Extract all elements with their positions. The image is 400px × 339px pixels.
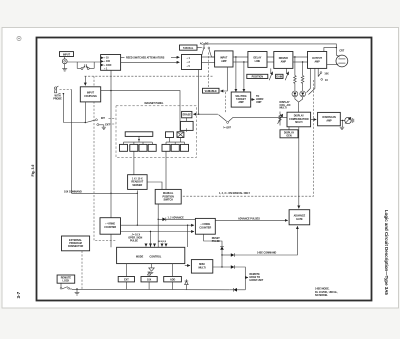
svg-text:Logic and Circuit Description—: Logic and Circuit Description—Type 3A5 — [384, 210, 389, 295]
label INPUT — [60, 52, 74, 57]
label REMOTE LOCK — [57, 275, 75, 283]
svg-text:INPUT: INPUT — [220, 56, 228, 59]
svg-text:COUPLING: COUPLING — [84, 95, 97, 98]
variable resistor display comp — [278, 112, 283, 126]
wire counter bus upper — [121, 225, 195, 226]
svg-text:CONNECTOR: CONNECTOR — [68, 245, 84, 248]
svg-text:LOCK: LOCK — [63, 280, 70, 283]
note text block — [315, 288, 338, 297]
block OUTPUT AMP — [308, 52, 327, 69]
block ADD button — [164, 277, 182, 282]
block 10X button — [141, 277, 157, 282]
block SIG TRIG TARGET AMP — [231, 92, 251, 107]
ground below BNC — [62, 64, 67, 71]
block readout drum — [125, 132, 153, 137]
wire display comp to advance gate — [298, 127, 300, 209]
dashed program connector down — [81, 251, 83, 289]
svg-text:1, 2 ADVANCE: 1, 2 ADVANCE — [168, 216, 185, 219]
svg-text:PULSE: PULSE — [212, 240, 220, 243]
wire bus drops to mode control — [146, 225, 188, 247]
label TAB BAL — [180, 45, 202, 50]
svg-text:MULTI: MULTI — [280, 107, 287, 110]
block MISC MULTI — [185, 260, 213, 274]
svg-text:MULTI: MULTI — [199, 267, 206, 270]
switch remote lock — [60, 283, 72, 289]
wire input amp bottom pair — [220, 67, 227, 113]
svg-text:VARIABLE: VARIABLE — [205, 90, 217, 93]
svg-text:÷ 10: ÷ 10 — [104, 57, 109, 60]
label 1 2 ADVANCE — [168, 216, 185, 219]
svg-text:GATE: GATE — [296, 218, 303, 221]
wire buttons to bottom rail — [126, 282, 172, 289]
svg-text:GAIN: GAIN — [276, 76, 282, 79]
svg-text:10X: 10X — [147, 279, 152, 282]
wire ring4 to mode control — [110, 234, 112, 247]
svg-text:COUNTER: COUNTER — [104, 226, 116, 229]
input coupling switch contacts — [81, 67, 89, 69]
block INPUT AMP — [215, 51, 233, 67]
svg-text:REED SWITCHED ATTENUATORS: REED SWITCHED ATTENUATORS — [126, 56, 165, 59]
wire driver amp to output amp — [293, 56, 308, 62]
wire counter bus middle — [121, 231, 195, 232]
dashed linkage mag switch down — [181, 80, 313, 196]
wire ext vertical to trigger switch — [63, 93, 64, 123]
svg-text:MULTI: MULTI — [295, 121, 302, 124]
resistor R display right — [301, 62, 304, 91]
wire BNC to coupling switch — [67, 62, 101, 68]
wire erase command — [222, 226, 297, 257]
svg-text:AMP: AMP — [281, 60, 287, 63]
wire input amp to delay line — [233, 56, 248, 62]
switch uncal — [199, 114, 232, 129]
block latch lower — [181, 121, 194, 130]
wire divider box to erase latch — [193, 70, 199, 115]
magnet coil boxes left — [120, 144, 157, 151]
svg-text:CRT: CRT — [339, 50, 344, 53]
wire display comp to overscan — [311, 119, 317, 121]
block trace position pair — [166, 132, 184, 138]
resistor R display left — [294, 57, 297, 91]
wire latch stubs — [186, 118, 188, 132]
wire coupling box bottom — [84, 102, 86, 123]
svg-text:AMP: AMP — [314, 60, 320, 63]
diode display left — [292, 91, 299, 112]
svg-text:COUNTER: COUNTER — [199, 227, 211, 230]
dashed linkage horizontal from coupling switch — [85, 75, 213, 77]
switch AC-DC — [200, 43, 215, 57]
svg-text:EXT: EXT — [124, 279, 129, 282]
block reed attenuator dividers — [101, 55, 121, 71]
block erase latch — [182, 111, 192, 117]
label POSITION pot — [247, 68, 273, 80]
svg-text:AMP: AMP — [326, 119, 332, 122]
label ERASE COMMAND — [257, 252, 277, 255]
block MODE CONTROL — [117, 247, 185, 263]
wire signal taps to target amp — [236, 57, 244, 92]
AC coupling capacitor — [83, 64, 88, 68]
wire magnet to manual switch — [165, 151, 167, 189]
svg-text:OUTPUT: OUTPUT — [312, 57, 322, 60]
wire magnet to readout senser — [133, 151, 135, 174]
block DRIVER AMP — [274, 52, 293, 69]
svg-text:GEN: GEN — [286, 135, 291, 138]
svg-text:14SE COMMAND: 14SE COMMAND — [257, 252, 277, 255]
diode reset — [220, 246, 224, 267]
probe icon — [55, 86, 59, 93]
wire top rail to CRT — [203, 43, 338, 56]
svg-text:SENSER: SENSER — [132, 184, 142, 187]
diode advance — [158, 218, 195, 222]
dashed linkage AC-DC to VARIABLE — [208, 53, 210, 89]
wire attenuator drive vertical — [110, 70, 111, 217]
dashed linkage vertical to program row — [94, 76, 117, 240]
svg-text:PULSE: PULSE — [130, 239, 138, 242]
CRT V1 — [336, 50, 348, 67]
label RESET PULSE — [212, 237, 221, 243]
block ADVANCE GATE — [289, 210, 310, 225]
wire 10X command — [72, 193, 139, 194]
svg-text:MAGNET PANEL: MAGNET PANEL — [145, 102, 164, 105]
wire advance pulses — [215, 219, 287, 221]
block gain switch dividers — [182, 55, 202, 70]
svg-text:SWITCH: SWITCH — [163, 199, 173, 202]
label TO HORIZ UNIT — [251, 95, 264, 104]
block MANUAL POSITION SWITCH — [155, 189, 181, 204]
wire remote erase bottom — [230, 288, 246, 292]
label GAIN pot — [276, 68, 289, 80]
svg-text:DRIVER: DRIVER — [279, 57, 288, 60]
block 1X 10X READOUT SENSER — [128, 175, 148, 190]
svg-text:AMP: AMP — [221, 60, 227, 63]
overscan lamp — [340, 117, 354, 124]
diode display right — [299, 91, 306, 102]
wire manual switch down — [158, 204, 159, 247]
svg-text:3-7: 3-7 — [16, 291, 21, 298]
svg-text:NO MODEL: NO MODEL — [315, 294, 328, 297]
wire readout senser down — [137, 190, 138, 226]
svg-text:a a p p: a a p p — [159, 240, 167, 243]
diode bottom rail up — [185, 279, 189, 289]
dashed probe links — [59, 90, 72, 94]
wire buttons to mode control — [126, 264, 172, 277]
block OVERSCAN AMP — [318, 112, 341, 125]
svg-text:UNIT: UNIT — [256, 101, 262, 104]
switch 10X 1X mag — [318, 68, 329, 82]
block divide by 3 ring counter — [195, 218, 215, 234]
block divide by 4 ring counter — [100, 218, 121, 235]
label REMOTE ERASE TO HORIZ UNIT — [250, 273, 264, 282]
ground at overscan — [340, 120, 344, 130]
label REED SWITCHED ATTENUATORS — [121, 56, 180, 59]
label 10X COMMAND — [64, 190, 82, 193]
svg-text:Fig. 3-6: Fig. 3-6 — [31, 165, 35, 177]
svg-text:CONTROL: CONTROL — [150, 255, 162, 258]
magnet coil boxes right — [162, 144, 189, 151]
svg-text:INPUT: INPUT — [63, 53, 71, 56]
svg-text:AMP: AMP — [238, 101, 244, 104]
wire misc multi to remote erase — [213, 265, 248, 290]
svg-text:DELAY: DELAY — [253, 57, 261, 60]
svg-text:INPUT: INPUT — [87, 92, 95, 95]
wire drum to magnet rail — [124, 136, 153, 144]
label DISPLAY COIL DC MULTI — [280, 101, 291, 110]
wire divider box to input amp — [202, 57, 215, 62]
svg-text:10X COMMAND: 10X COMMAND — [64, 190, 82, 193]
diode above 10X button — [148, 272, 151, 277]
label VOLTS PROBE — [53, 95, 62, 101]
wire ring3 reset vertical — [204, 234, 222, 246]
svg-text:1X: 1X — [325, 79, 328, 82]
schematic border frame — [37, 38, 372, 301]
svg-text:HORIZ UNIT: HORIZ UNIT — [250, 279, 264, 282]
wire probe vertical to 10X command — [71, 90, 73, 194]
punch hole mark — [17, 36, 21, 40]
wire bottom rail — [72, 288, 230, 290]
block INPUT COUPLING — [80, 87, 100, 102]
label OPER SIGN PULSE — [128, 231, 166, 242]
ground remote lock — [75, 288, 80, 295]
svg-text:INT: INT — [101, 117, 105, 120]
wire attenuator lower line — [121, 61, 180, 63]
wire output amp top to CRT — [324, 47, 337, 52]
wire delay line to driver amp — [267, 57, 274, 62]
label ADVANCE PULSES — [238, 218, 260, 221]
wire uncal to display comp — [228, 117, 287, 121]
magnet panel dashed enclosure — [116, 106, 197, 158]
block DELAY LINE — [248, 52, 267, 68]
wire output amp bottom pair — [307, 68, 315, 94]
wire senser to manual switch — [147, 182, 162, 189]
svg-text:PROBE: PROBE — [53, 97, 62, 100]
wire coupling box to magnet panel — [101, 91, 180, 132]
svg-text:ADD: ADD — [170, 279, 175, 282]
svg-text:1, 2, 3 ‣ ON MANUAL ONLY: 1, 2, 3 ‣ ON MANUAL ONLY — [219, 192, 250, 195]
label MAGNET PANEL — [139, 100, 170, 105]
ground below mode control — [149, 264, 155, 274]
wire linkage into coupling box — [84, 76, 86, 85]
svg-text:MODE: MODE — [136, 255, 144, 258]
svg-text:LINE: LINE — [255, 60, 261, 63]
label VARIABLE — [203, 88, 220, 93]
switch INT-EXT pickoff — [86, 117, 110, 127]
wire right magnet rail — [166, 138, 185, 145]
svg-text:TAB BAL: TAB BAL — [183, 47, 194, 50]
svg-text:ADVANCE PULSES: ADVANCE PULSES — [238, 218, 260, 221]
block EXTERNAL PROGRAM CONNECTOR — [62, 236, 90, 251]
wire trigger pickoff row — [64, 122, 87, 123]
input BNC connector J1 — [62, 57, 67, 64]
block DISPLAY GEN — [280, 127, 298, 138]
svg-text:10X: 10X — [324, 72, 329, 75]
svg-text:POSITION: POSITION — [252, 76, 264, 79]
wire output amp to CRT lower plate — [327, 63, 337, 65]
block DISPLAY COMPENSATION MULTI — [287, 112, 311, 127]
svg-text:÷ 100: ÷ 100 — [104, 60, 111, 63]
block EXT button — [118, 277, 134, 282]
svg-text:ERASE: ERASE — [183, 114, 192, 117]
label 1 2 3 ON MANUAL ONLY — [219, 192, 250, 195]
ground at pickoff — [102, 125, 106, 130]
panel left stubs — [109, 119, 117, 125]
